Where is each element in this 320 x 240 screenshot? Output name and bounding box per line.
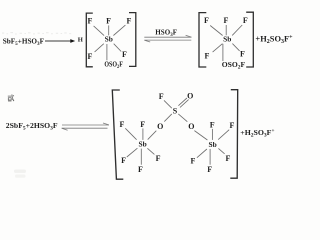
svg-text:F: F xyxy=(159,92,164,101)
svg-text:F: F xyxy=(126,16,131,25)
equilibrium harpoons (bottom row) xyxy=(62,123,109,130)
equilibrium harpoons (top row) xyxy=(144,35,191,42)
svg-text:F: F xyxy=(156,154,161,163)
O-Sb left bond xyxy=(148,131,157,140)
bracket left (complex 2) xyxy=(199,13,206,67)
svg-text:F: F xyxy=(210,120,215,129)
complex 1 bonds xyxy=(94,25,126,60)
svg-text:F: F xyxy=(120,120,125,129)
svg-text:F: F xyxy=(140,120,145,129)
big bracket right xyxy=(230,90,237,179)
Chinese 'or' character xyxy=(8,94,14,101)
svg-text:F: F xyxy=(88,52,93,61)
faint scan smudge lower-left xyxy=(14,170,26,173)
svg-text:F: F xyxy=(106,17,111,26)
S-O left bond xyxy=(164,114,172,122)
svg-text:F: F xyxy=(230,121,235,130)
svg-text:O: O xyxy=(187,92,193,101)
svg-text:F: F xyxy=(226,154,231,163)
svg-text:F: F xyxy=(240,50,245,59)
bracket right (complex 1) xyxy=(129,13,136,67)
svg-text:H: H xyxy=(78,37,84,44)
svg-text:F: F xyxy=(190,157,195,166)
svg-text:Sb: Sb xyxy=(138,140,146,149)
complex 2 bonds xyxy=(210,25,242,61)
svg-text:2SbF5+2HSO3F: 2SbF5+2HSO3F xyxy=(6,121,58,132)
svg-text:OSO2F: OSO2F xyxy=(222,60,246,70)
svg-text:F: F xyxy=(121,156,126,165)
big bracket left (slanted) xyxy=(112,90,123,179)
svg-text:+H2SO3F+: +H2SO3F+ xyxy=(240,128,274,139)
faint scan speckle band upper-left xyxy=(2,32,71,34)
svg-text:O: O xyxy=(157,122,163,131)
svg-text:O: O xyxy=(188,122,194,131)
svg-text:F: F xyxy=(204,16,209,25)
svg-text:F: F xyxy=(138,165,143,174)
O-Sb right bond xyxy=(194,131,207,140)
bracket left (complex 1) xyxy=(86,13,93,67)
svg-text:F: F xyxy=(205,52,210,61)
svg-text:F: F xyxy=(88,17,93,26)
svg-text:F: F xyxy=(122,50,127,59)
svg-text:HSO3F: HSO3F xyxy=(155,29,177,38)
left Sb bonds xyxy=(125,128,154,164)
svg-text:S: S xyxy=(173,107,178,116)
S-O right bond xyxy=(178,114,187,122)
svg-text:F: F xyxy=(224,16,229,25)
svg-text:Sb: Sb xyxy=(208,140,216,149)
S=O double bond xyxy=(178,98,187,106)
reaction arrow xyxy=(45,40,71,42)
right Sb bonds xyxy=(197,129,229,165)
svg-text:Sb: Sb xyxy=(105,35,113,44)
svg-text:Sb: Sb xyxy=(223,35,231,44)
svg-text:F: F xyxy=(207,165,212,174)
F-S bond xyxy=(164,100,172,108)
S group bonds xyxy=(148,98,208,140)
svg-text:F: F xyxy=(243,16,248,25)
bracket right (complex 2) xyxy=(246,12,253,67)
